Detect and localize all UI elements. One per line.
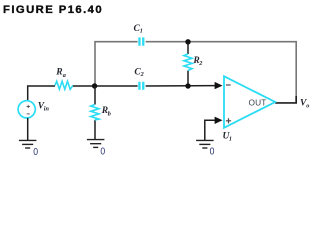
wire: middle rail Ra to C2 <box>73 85 138 87</box>
ground below Vin <box>19 140 37 148</box>
svg-text:R: R <box>55 67 62 77</box>
svg-text:0: 0 <box>210 147 215 158</box>
resistor R2 leads <box>187 42 189 86</box>
svg-text:1: 1 <box>140 28 143 35</box>
svg-text:2: 2 <box>198 60 202 67</box>
ground below op-amp plus input <box>196 140 214 148</box>
svg-text:o: o <box>306 102 309 109</box>
wire: gray top rail left segment (to C1 left plate) <box>94 41 137 43</box>
ground below Rb <box>87 140 105 148</box>
wire: gray feedback loop left vertical (node A up to top rail) <box>94 42 96 86</box>
svg-text:FIGURE P16.40: FIGURE P16.40 <box>3 4 103 16</box>
node A junction dot <box>92 83 97 88</box>
op-amp U1 triangle <box>224 76 275 128</box>
arrow into op-amp inverting input <box>215 82 223 89</box>
op-amp plus pin mark <box>226 118 231 123</box>
svg-text:0: 0 <box>33 147 38 158</box>
svg-text:b: b <box>108 111 111 118</box>
node B top junction dot <box>185 39 190 44</box>
resistor Ra <box>55 81 73 89</box>
svg-text:2: 2 <box>140 71 144 78</box>
capacitor C1 plates <box>138 37 144 45</box>
wire: Vin top lead and middle rail to Ra <box>28 86 55 101</box>
wire: Vin bottom lead to ground <box>27 118 29 140</box>
op-amp minus pin mark <box>226 84 231 86</box>
capacitor C2 plates <box>138 82 144 90</box>
resistor Rb leads <box>94 86 96 140</box>
arrow into op-amp non-inverting input <box>215 117 223 124</box>
resistor R2 zigzag <box>184 54 192 71</box>
wire: op-amp plus input from ground <box>205 120 216 140</box>
node B bottom junction dot <box>185 83 190 88</box>
wire: gray top rail right segment (C1 right plate to top-right corner) and right vertical down to output <box>146 42 297 103</box>
resistor Rb zigzag <box>91 105 99 121</box>
svg-text:in: in <box>44 106 50 113</box>
voltage source Vin circle <box>18 101 35 118</box>
svg-text:OUT: OUT <box>249 97 267 107</box>
wire: middle rail C2 to op-amp minus input <box>146 85 216 87</box>
svg-text:1: 1 <box>229 135 232 142</box>
svg-text:a: a <box>63 72 66 79</box>
voltage source plus mark <box>27 105 30 108</box>
wire: op-amp output stub to Vo <box>275 96 297 103</box>
svg-text:0: 0 <box>100 147 105 158</box>
voltage source minus mark <box>27 113 30 115</box>
